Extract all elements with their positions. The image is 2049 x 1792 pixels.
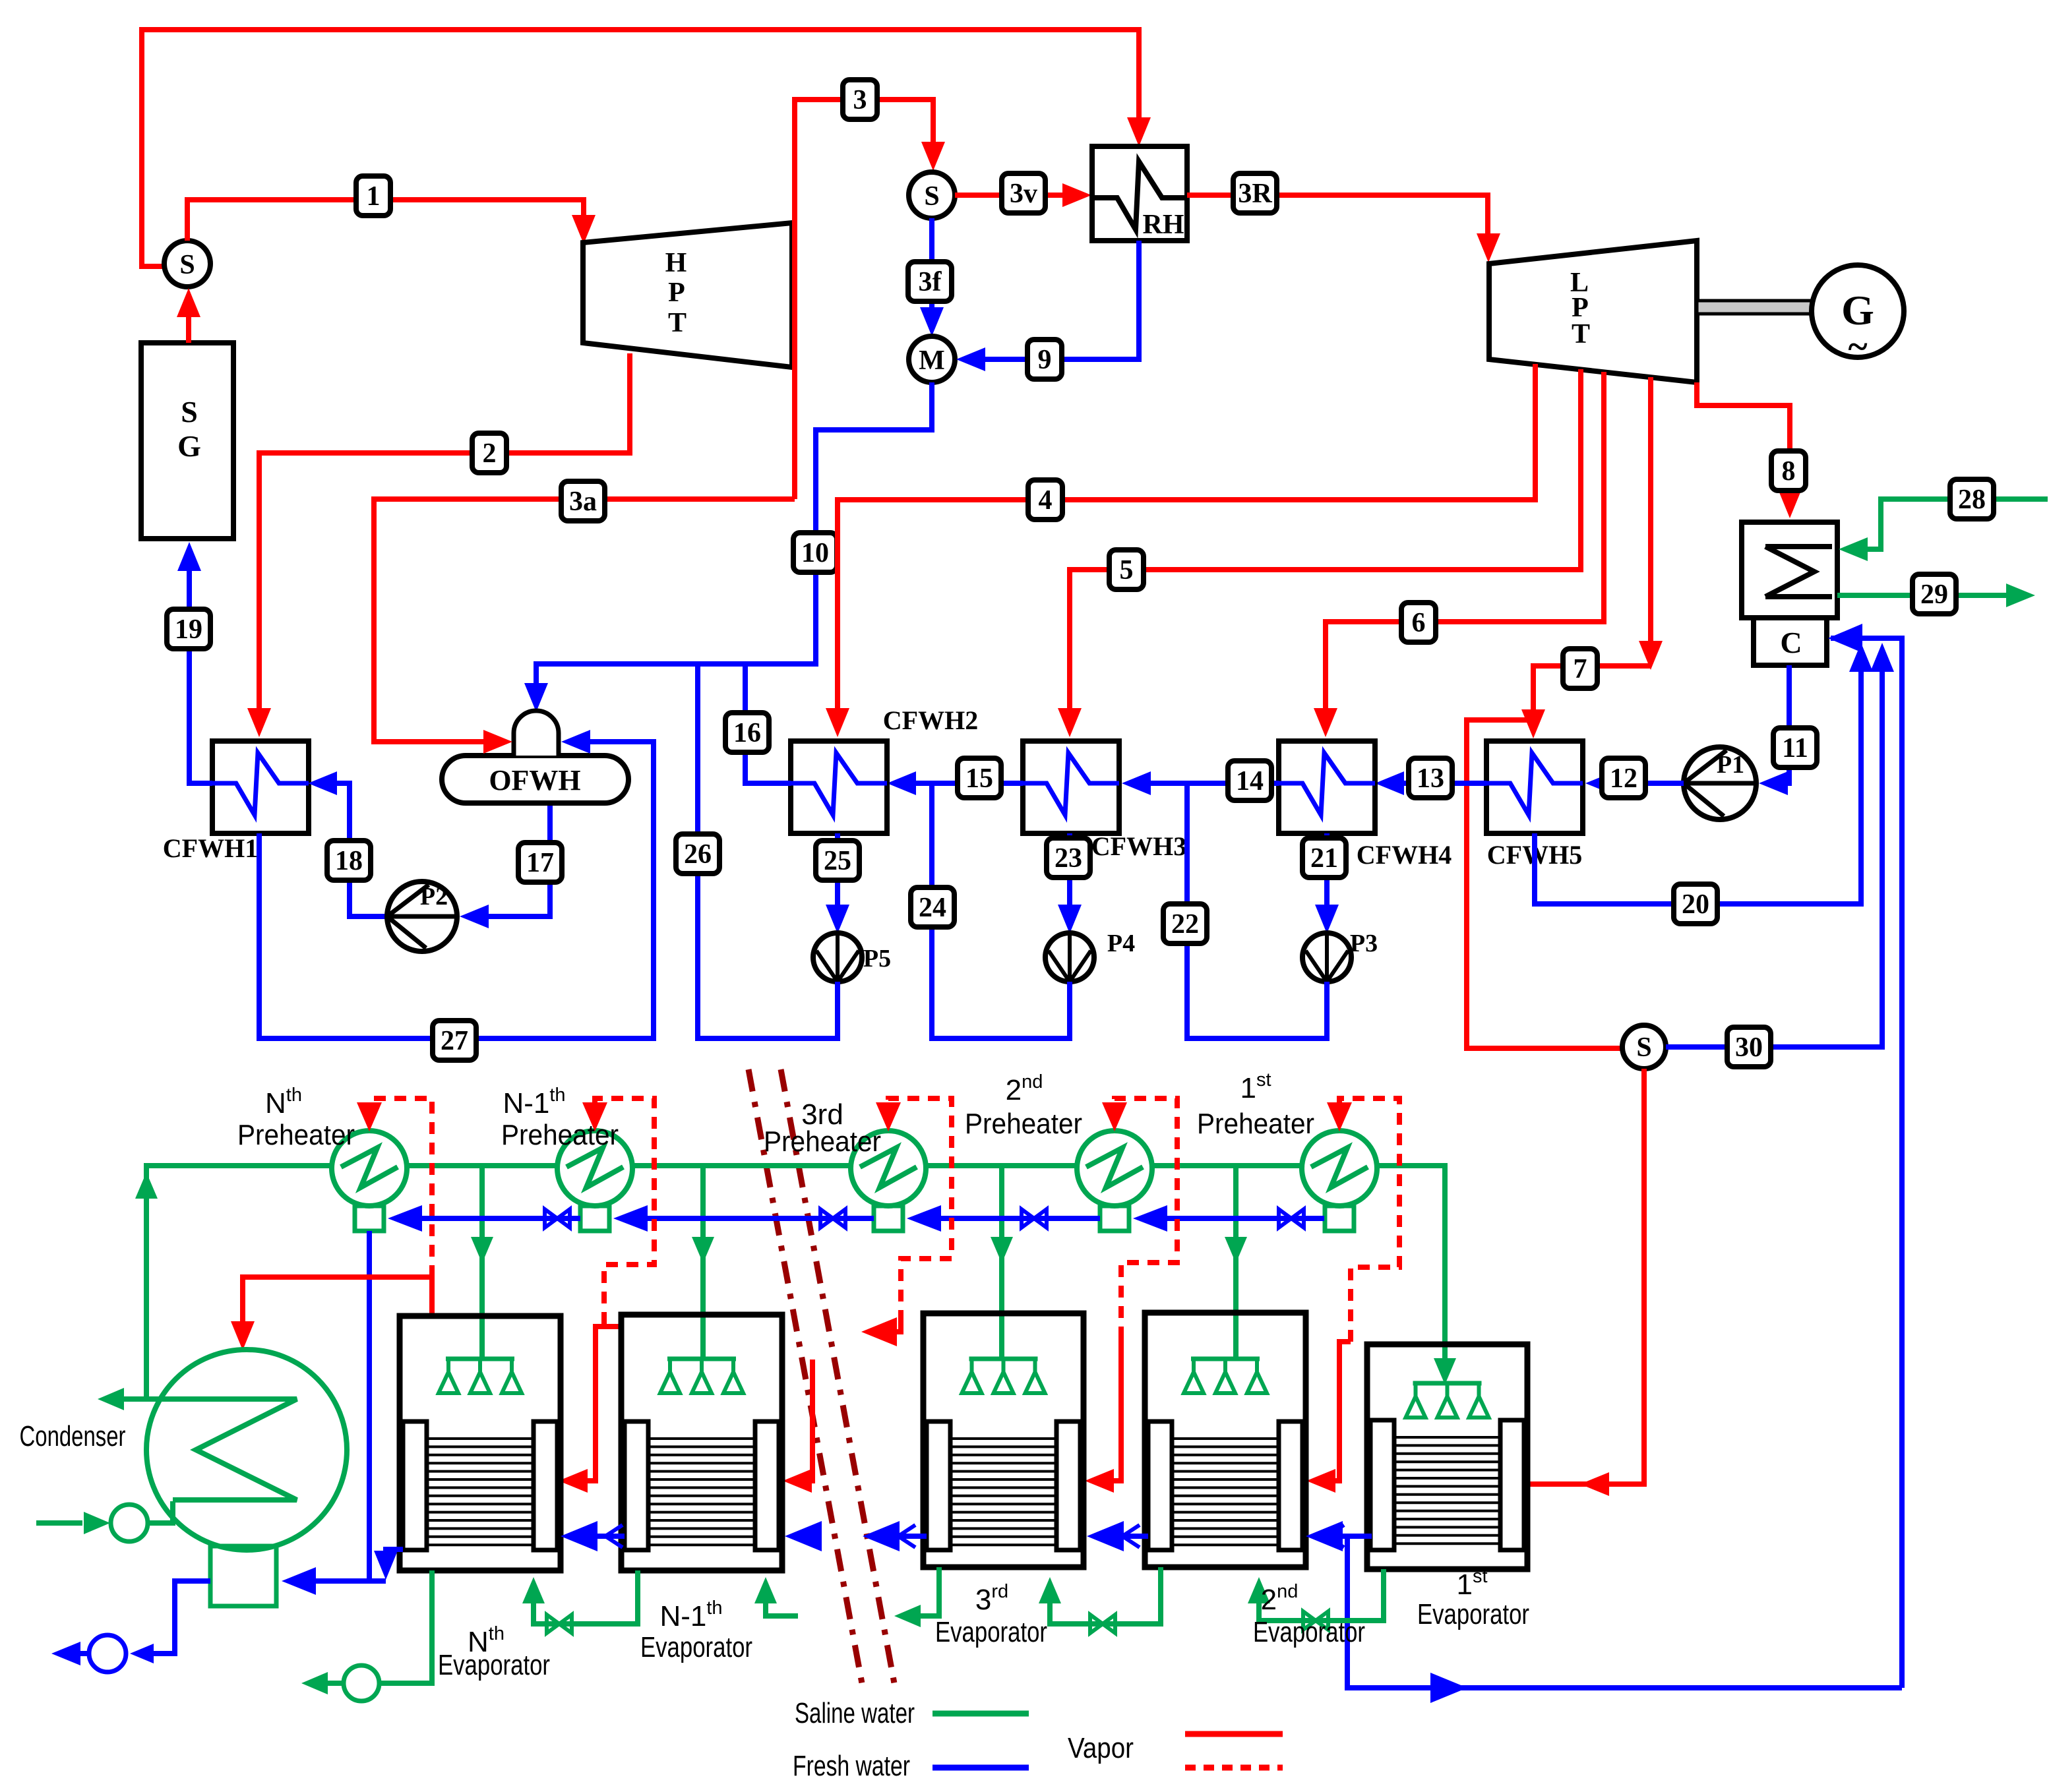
wire 4 — [826, 364, 1535, 737]
wire 8 — [1697, 382, 1802, 518]
wire 29 — [1837, 574, 2035, 614]
svg-text:CFWH1: CFWH1 — [163, 833, 258, 863]
preheater 1st — [1302, 1131, 1377, 1231]
svg-text:CFWH2: CFWH2 — [883, 705, 978, 735]
shaft — [1697, 301, 1812, 314]
brine 2nd-3rd — [1039, 1567, 1161, 1633]
wire 3v — [955, 183, 1091, 207]
svg-text:5: 5 — [1120, 555, 1134, 585]
condenser coil — [123, 1399, 297, 1500]
heater CFWH5 — [1486, 741, 1583, 870]
svg-text:16: 16 — [733, 718, 761, 748]
node M mixer — [909, 336, 955, 382]
svg-text:Preheater: Preheater — [965, 1108, 1082, 1140]
svg-text:~: ~ — [1848, 326, 1867, 367]
svg-text:T: T — [1572, 319, 1590, 349]
pump P2 — [387, 881, 457, 951]
svg-text:CFWH4: CFWH4 — [1357, 840, 1452, 870]
node S splitter 2 — [909, 172, 955, 218]
vapor to preheater 3rd — [861, 1098, 952, 1346]
wire 20 — [1535, 643, 1873, 924]
svg-text:3: 3 — [853, 85, 867, 115]
condenser HX — [1742, 522, 1837, 618]
wire 2 — [247, 353, 630, 737]
svg-text:4: 4 — [1039, 485, 1053, 516]
distillate N to hotwell — [282, 1549, 403, 1595]
svg-text:Evaporator: Evaporator — [438, 1649, 550, 1681]
fresh water from preheater N — [367, 1231, 372, 1581]
vapor to preheater N-1 — [559, 1098, 654, 1493]
legend fresh water — [793, 1750, 1029, 1782]
svg-text:8: 8 — [1782, 456, 1796, 487]
svg-text:Evaporator: Evaporator — [935, 1616, 1047, 1648]
heater CFWH1 — [163, 741, 309, 863]
svg-text:6: 6 — [1412, 608, 1426, 638]
svg-text:RH: RH — [1143, 210, 1184, 240]
svg-text:3a: 3a — [569, 487, 597, 517]
steam generator SG — [141, 343, 233, 539]
wire 5 — [1058, 369, 1581, 737]
svg-text:13: 13 — [1417, 763, 1444, 794]
caption N-1th evaporator — [640, 1598, 752, 1663]
svg-text:22: 22 — [1171, 909, 1199, 940]
caption 3rd preheater — [764, 1098, 881, 1158]
svg-text:19: 19 — [175, 614, 202, 645]
distillate 3rd-break — [863, 1521, 927, 1551]
evaporator Nth — [400, 1316, 561, 1570]
brine 1st-2nd — [1248, 1569, 1384, 1630]
wire 1 — [187, 200, 596, 244]
heater CFWH3 — [1023, 741, 1186, 861]
svg-text:P5: P5 — [863, 945, 891, 972]
label 3 — [843, 80, 877, 119]
svg-text:12: 12 — [1610, 763, 1637, 794]
saline feed 2nd evaporator — [1225, 1166, 1247, 1357]
preheater N-1th — [557, 1131, 632, 1231]
preheater Nth — [332, 1131, 407, 1231]
wire 3f — [920, 218, 944, 336]
fresh water header seg 3rd-N-1 — [613, 1205, 874, 1232]
caption 1st evaporator — [1417, 1566, 1529, 1630]
svg-text:OFWH: OFWH — [489, 764, 580, 796]
cooling water outfall — [98, 1388, 146, 1410]
green main saline line — [135, 1166, 1456, 1399]
svg-text:17: 17 — [526, 848, 554, 878]
svg-text:Evaporator: Evaporator — [1253, 1616, 1365, 1648]
caption 2nd preheater — [965, 1071, 1082, 1140]
svg-text:S: S — [179, 250, 195, 280]
svg-text:14: 14 — [1236, 766, 1264, 796]
svg-text:28: 28 — [1958, 485, 1986, 515]
node S splitter 3 — [1622, 1025, 1666, 1069]
svg-text:Saline water: Saline water — [795, 1697, 915, 1729]
svg-text:29: 29 — [1920, 580, 1948, 610]
svg-text:Condenser: Condenser — [20, 1420, 126, 1452]
wire 11 — [1759, 665, 1817, 795]
svg-text:P: P — [668, 278, 685, 308]
svg-text:S: S — [181, 395, 198, 429]
svg-text:Preheater: Preheater — [501, 1119, 619, 1151]
svg-text:Evaporator: Evaporator — [1417, 1598, 1529, 1630]
preheater 3rd — [851, 1131, 926, 1231]
brine N-1-N — [522, 1570, 638, 1633]
wire 6 — [1314, 372, 1604, 737]
svg-text:9: 9 — [1038, 345, 1052, 375]
label 2 — [472, 433, 506, 473]
svg-text:C: C — [1780, 626, 1802, 659]
wire steam to 1st evaporator — [1527, 1069, 1644, 1496]
wire 3a — [374, 481, 795, 754]
break line 2 — [781, 1069, 894, 1683]
fresh water header seg 2nd-3rd — [907, 1205, 1100, 1232]
svg-text:G: G — [177, 429, 201, 463]
caption 2nd evaporator — [1253, 1581, 1365, 1648]
svg-text:P1: P1 — [1717, 751, 1744, 779]
label 1 — [356, 176, 390, 216]
svg-text:Fresh water: Fresh water — [793, 1750, 910, 1782]
wire 15 — [887, 758, 1023, 798]
pump P3 — [1302, 930, 1378, 982]
svg-text:3v: 3v — [1010, 179, 1037, 209]
svg-text:18: 18 — [335, 846, 363, 876]
label 9 — [1027, 340, 1062, 379]
svg-text:11: 11 — [1782, 733, 1808, 763]
wire 24 — [911, 783, 1070, 1038]
svg-text:30: 30 — [1735, 1032, 1763, 1063]
seawater inlet pump — [36, 1501, 173, 1541]
wire distillate to C — [1828, 624, 1902, 1688]
distillate 2nd-3rd — [1087, 1521, 1148, 1551]
label 8 — [1771, 451, 1806, 491]
distillate break-N-1 — [785, 1521, 822, 1551]
wire 28 — [1839, 479, 2048, 561]
svg-text:P4: P4 — [1107, 930, 1135, 957]
svg-text:1: 1 — [367, 181, 381, 212]
label 3f — [908, 262, 952, 301]
pump P5 — [813, 933, 891, 982]
wire 21 — [1302, 833, 1346, 934]
caption N-1th preheater — [501, 1085, 619, 1151]
turbine LPT — [1489, 241, 1697, 382]
pump P4 — [1045, 930, 1135, 982]
evaporator 2nd — [1145, 1313, 1306, 1567]
svg-text:23: 23 — [1055, 843, 1082, 874]
wire SG to S — [177, 288, 200, 343]
wire 17 — [460, 803, 562, 928]
brine 3rd to break — [894, 1567, 939, 1627]
wire 3R — [1187, 195, 1500, 262]
caption 3rd evaporator — [935, 1581, 1047, 1648]
evaporator 1st — [1367, 1344, 1527, 1569]
distillate N-1-N — [561, 1521, 625, 1551]
turbine HPT — [583, 223, 792, 367]
condenser circle — [146, 1350, 347, 1550]
svg-text:24: 24 — [919, 893, 946, 923]
vapor from break to N-1 evaporator — [783, 1359, 812, 1493]
fresh water header seg 1st-2nd — [1133, 1205, 1324, 1232]
pump P1 — [1684, 747, 1756, 820]
svg-text:15: 15 — [965, 763, 993, 794]
fresh water out — [51, 1581, 210, 1672]
vapor to preheater 2nd — [1085, 1098, 1177, 1493]
fresh water header seg N-1-N — [388, 1205, 580, 1232]
svg-text:H: H — [665, 248, 687, 278]
svg-text:25: 25 — [824, 846, 851, 876]
svg-text:10: 10 — [801, 538, 829, 568]
legend saline water — [795, 1697, 1029, 1729]
wire 3 — [795, 100, 945, 499]
generator G — [1812, 265, 1904, 367]
svg-text:M: M — [919, 345, 945, 376]
wire 22 — [1163, 783, 1327, 1038]
wire 9 — [956, 241, 1139, 371]
wire 14 — [1122, 761, 1279, 800]
svg-text:CFWH3: CFWH3 — [1091, 831, 1186, 861]
wire 18 — [308, 771, 387, 916]
node S splitter 1 — [164, 241, 210, 287]
svg-text:21: 21 — [1310, 843, 1338, 874]
reheater RH — [1092, 146, 1187, 241]
svg-text:Vapor: Vapor — [1068, 1732, 1134, 1764]
svg-text:26: 26 — [684, 839, 712, 870]
svg-text:20: 20 — [1682, 889, 1709, 920]
brine break to N-1 — [754, 1577, 798, 1616]
wire 10 — [524, 382, 932, 712]
saline feed 3rd evaporator — [991, 1166, 1013, 1357]
heater CFWH2 — [791, 705, 978, 833]
wire 1a — [142, 30, 1151, 266]
wire 27 — [259, 730, 654, 1060]
break line 1 — [749, 1069, 862, 1683]
label 3R — [1233, 173, 1277, 213]
evaporator 3rd — [923, 1313, 1084, 1567]
caption condenser — [20, 1420, 126, 1452]
vapor to preheater N — [231, 1098, 432, 1350]
brine blowdown pump — [301, 1570, 432, 1701]
svg-text:T: T — [668, 308, 687, 338]
heater CFWH4 — [1279, 741, 1452, 870]
feedwater tank OFWH — [442, 711, 628, 803]
legend vapor — [1068, 1732, 1283, 1768]
svg-text:Preheater: Preheater — [764, 1125, 881, 1158]
svg-text:P3: P3 — [1350, 930, 1378, 957]
caption Nth preheater — [237, 1085, 355, 1151]
wire 25 — [816, 833, 859, 934]
evaporator N-1th — [621, 1315, 782, 1570]
preheater 2nd — [1077, 1131, 1152, 1231]
wire 12 — [1585, 758, 1684, 798]
svg-text:S: S — [1636, 1032, 1651, 1063]
caption Nth evaporator — [438, 1623, 550, 1681]
svg-text:Evaporator: Evaporator — [640, 1631, 752, 1663]
svg-text:P2: P2 — [420, 883, 448, 911]
vapor to preheater 1st — [1306, 1098, 1399, 1493]
svg-text:2: 2 — [483, 438, 497, 469]
wire 19 — [167, 542, 212, 783]
label 10 — [793, 533, 837, 572]
saline feed N evaporator — [471, 1166, 493, 1357]
wire 23 — [1047, 833, 1090, 934]
wire 16 — [725, 664, 791, 783]
distillate 1st-2nd — [1306, 1521, 1902, 1703]
wire 7 — [1467, 377, 1663, 1048]
hotwell C — [1754, 618, 1827, 665]
saline feed N-1 evaporator — [692, 1166, 714, 1357]
svg-text:3f: 3f — [919, 267, 942, 297]
svg-text:27: 27 — [441, 1026, 468, 1056]
caption 1st preheater — [1197, 1069, 1314, 1140]
svg-text:S: S — [924, 181, 939, 212]
wire 30 — [1666, 643, 1894, 1067]
wire 26 — [676, 664, 838, 1038]
label 3v — [1002, 173, 1045, 213]
condenser hotwell box — [210, 1546, 276, 1606]
wire 13 — [1375, 758, 1486, 798]
svg-text:Preheater: Preheater — [237, 1119, 355, 1151]
svg-text:7: 7 — [1574, 654, 1587, 684]
svg-text:Preheater: Preheater — [1197, 1108, 1314, 1140]
svg-text:3R: 3R — [1238, 179, 1272, 209]
